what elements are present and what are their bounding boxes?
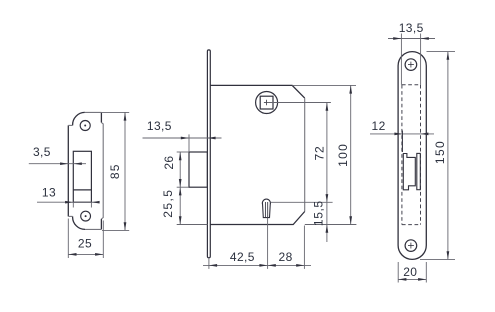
svg-text:25: 25 [78,237,92,251]
svg-text:13,5: 13,5 [399,21,424,35]
svg-text:26: 26 [162,156,176,170]
svg-text:25,5: 25,5 [161,189,175,218]
svg-text:12: 12 [372,119,386,133]
svg-text:13: 13 [42,186,56,200]
svg-text:85: 85 [108,163,122,179]
svg-text:42,5: 42,5 [230,250,255,264]
svg-text:3,5: 3,5 [33,145,51,159]
svg-text:15,5: 15,5 [311,200,325,226]
svg-text:150: 150 [433,140,447,164]
svg-text:13,5: 13,5 [147,119,172,133]
svg-text:20: 20 [403,265,417,279]
svg-text:28: 28 [279,250,293,264]
svg-text:100: 100 [336,143,350,167]
svg-text:72: 72 [312,146,326,161]
